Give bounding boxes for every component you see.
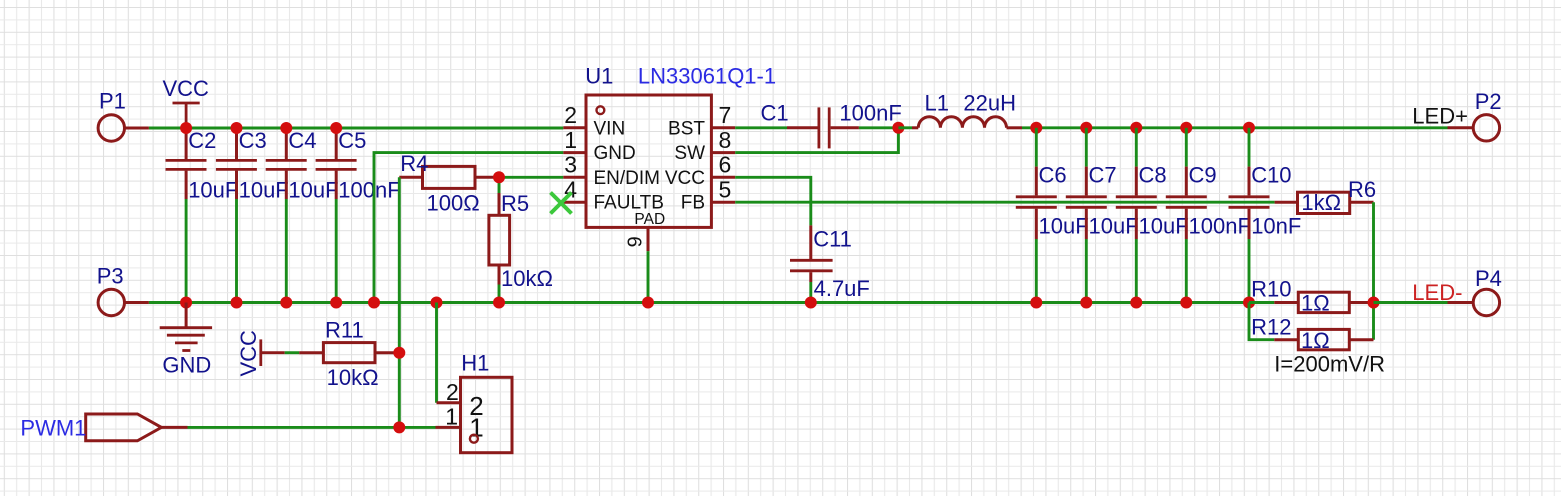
connector P4	[1448, 266, 1502, 315]
U1 pin 1 GND	[563, 127, 635, 164]
svg-text:10uF: 10uF	[1089, 214, 1139, 239]
wire PWM1 to H1	[188, 426, 436, 429]
svg-text:3: 3	[564, 152, 577, 178]
svg-text:C8: C8	[1139, 163, 1167, 188]
wire R4 left vertical (PWM net)	[398, 177, 401, 427]
H1 pin 1	[436, 403, 484, 442]
svg-text:100nF: 100nF	[338, 178, 400, 203]
svg-text:9: 9	[624, 236, 646, 247]
power flag VCC (top)	[163, 76, 210, 128]
svg-text:VCC: VCC	[665, 168, 705, 189]
svg-text:2: 2	[446, 379, 459, 405]
svg-text:P1: P1	[99, 89, 126, 114]
svg-text:P4: P4	[1475, 266, 1502, 291]
H1 pin 2	[437, 379, 484, 421]
wire VCC pin6 to C11	[735, 177, 811, 225]
svg-text:10uF: 10uF	[239, 178, 289, 203]
capacitor C2	[166, 128, 239, 203]
svg-text:1: 1	[445, 403, 458, 429]
resistor R12	[1249, 303, 1374, 353]
ground symbol GND	[160, 303, 212, 378]
svg-text:100Ω: 100Ω	[427, 191, 480, 216]
svg-text:LED+: LED+	[1412, 103, 1468, 128]
svg-text:PAD: PAD	[634, 211, 665, 228]
junction sense node	[1368, 297, 1380, 309]
svg-text:1: 1	[564, 127, 577, 153]
wire PAD to GND rail	[647, 251, 650, 302]
junction R11 to PWM net	[393, 347, 405, 359]
wire BST to C1	[735, 126, 787, 129]
capacitor C8	[1116, 128, 1189, 303]
U1 pin 4 FAULTB	[563, 176, 664, 213]
svg-text:C5: C5	[338, 128, 366, 153]
no-connect X on pin 4	[551, 193, 572, 214]
svg-text:C1: C1	[761, 101, 789, 126]
U1 pin 6 VCC	[665, 152, 735, 189]
wire VCC to R11	[285, 351, 300, 354]
svg-text:BST: BST	[668, 118, 705, 139]
svg-text:100nF: 100nF	[839, 101, 901, 126]
annotation I=200mV/R	[1274, 351, 1385, 376]
capacitor C3	[216, 128, 289, 203]
svg-text:C3: C3	[239, 128, 267, 153]
U1 pin 8 SW	[674, 127, 735, 164]
svg-text:C9: C9	[1189, 163, 1217, 188]
wire EN/DIM node	[499, 176, 563, 179]
U1 pin 7 BST	[668, 102, 735, 139]
connector P3	[97, 264, 149, 316]
svg-text:LN33061Q1-1: LN33061Q1-1	[638, 64, 776, 89]
capacitor C10	[1229, 128, 1302, 303]
wire C5 to GND rail	[335, 199, 338, 303]
wire C11 to GND rail	[809, 282, 812, 303]
svg-text:VIN: VIN	[594, 118, 626, 139]
svg-text:P3: P3	[97, 264, 124, 289]
svg-text:10kΩ: 10kΩ	[327, 365, 379, 390]
svg-text:5: 5	[719, 176, 732, 202]
svg-text:C4: C4	[288, 128, 316, 153]
resistor R11	[299, 318, 399, 390]
svg-text:I=200mV/R: I=200mV/R	[1274, 351, 1385, 376]
svg-text:SW: SW	[674, 143, 705, 164]
svg-text:EN/DIM: EN/DIM	[594, 168, 661, 189]
junction EN node	[493, 171, 505, 183]
capacitor C6	[1016, 128, 1089, 303]
svg-text:R5: R5	[501, 191, 529, 216]
U1 pin 2 VIN	[563, 102, 625, 139]
svg-text:1Ω: 1Ω	[1301, 291, 1330, 316]
wire SW pin8 to node	[735, 128, 898, 153]
U1 pin 5 FB	[681, 176, 735, 213]
svg-text:L1: L1	[925, 91, 949, 116]
power flag VCC (left, rotated)	[236, 330, 285, 377]
svg-text:R11: R11	[325, 318, 364, 343]
svg-text:C2: C2	[188, 128, 216, 153]
svg-text:10kΩ: 10kΩ	[501, 266, 553, 291]
svg-text:R10: R10	[1251, 277, 1291, 302]
connector H1	[461, 351, 513, 453]
svg-text:U1: U1	[585, 64, 613, 89]
svg-text:10uF: 10uF	[1139, 214, 1189, 239]
resistor R6	[1275, 177, 1377, 215]
wire GND bottom rail	[149, 301, 1249, 304]
svg-text:VCC: VCC	[236, 330, 261, 377]
wire R6 to sense node	[1372, 202, 1375, 340]
svg-text:R6: R6	[1348, 177, 1376, 202]
wire H1 pin2 to GND rail	[435, 303, 438, 403]
U1 pin 9 PAD	[624, 211, 665, 251]
svg-text:100nF: 100nF	[1189, 214, 1251, 239]
wire LED+ rail	[1022, 126, 1448, 129]
connector P2	[1448, 89, 1502, 141]
wire C3 to GND rail	[235, 199, 238, 303]
resistor R5	[489, 177, 553, 302]
capacitor C9	[1166, 128, 1251, 303]
svg-text:1kΩ: 1kΩ	[1301, 190, 1341, 215]
svg-text:R12: R12	[1251, 314, 1291, 339]
wire C2 to GND rail	[185, 199, 188, 303]
capacitor C1	[761, 101, 902, 149]
junction dots on LED+ rail	[1030, 122, 1255, 134]
net label LED+	[1412, 103, 1468, 128]
svg-text:6: 6	[719, 152, 732, 178]
net label LED-	[1412, 280, 1462, 305]
capacitor C11	[790, 225, 870, 301]
connector P1	[98, 89, 149, 142]
svg-text:P2: P2	[1475, 89, 1502, 114]
svg-text:2: 2	[564, 102, 577, 128]
IC U1 body	[585, 64, 776, 228]
resistor R4	[399, 151, 499, 216]
svg-text:VCC: VCC	[163, 76, 210, 101]
svg-text:C11: C11	[813, 226, 852, 251]
svg-text:1: 1	[469, 413, 483, 443]
svg-text:22uH: 22uH	[963, 91, 1016, 116]
net flag PWM1	[20, 414, 187, 441]
capacitor C5	[316, 128, 401, 203]
junction dots on GND rail	[180, 297, 1255, 309]
svg-text:1Ω: 1Ω	[1301, 328, 1330, 353]
svg-text:C7: C7	[1089, 163, 1117, 188]
wire FB net	[735, 201, 1274, 204]
capacitor C4	[266, 128, 339, 203]
svg-text:7: 7	[719, 102, 732, 128]
svg-text:H1: H1	[461, 351, 489, 376]
svg-text:R4: R4	[400, 151, 428, 176]
wire GND pin1 of U1	[374, 153, 563, 303]
svg-text:10nF: 10nF	[1251, 214, 1301, 239]
svg-text:GND: GND	[594, 143, 636, 164]
svg-text:FB: FB	[681, 193, 705, 214]
inductor L1	[898, 91, 1022, 128]
svg-text:4.7uF: 4.7uF	[814, 276, 870, 301]
wire LED-	[1374, 301, 1448, 304]
junction SW node	[892, 122, 904, 134]
wire VIN top rail	[149, 127, 563, 130]
svg-text:10uF: 10uF	[288, 178, 338, 203]
resistor R10	[1249, 277, 1374, 316]
svg-text:PWM1: PWM1	[20, 415, 86, 440]
svg-text:10uF: 10uF	[1039, 214, 1089, 239]
U1 pin 3 EN/DIM	[563, 152, 660, 189]
wire C4 to GND rail	[285, 199, 288, 303]
junction PWM net	[393, 421, 405, 433]
svg-text:GND: GND	[162, 352, 211, 377]
svg-text:10uF: 10uF	[188, 178, 238, 203]
svg-text:C10: C10	[1251, 163, 1291, 188]
capacitor C7	[1066, 128, 1139, 303]
svg-text:8: 8	[719, 127, 732, 153]
junction dots on VIN rail	[180, 122, 342, 134]
svg-text:C6: C6	[1039, 163, 1067, 188]
wire C1 to SW node	[859, 126, 899, 129]
